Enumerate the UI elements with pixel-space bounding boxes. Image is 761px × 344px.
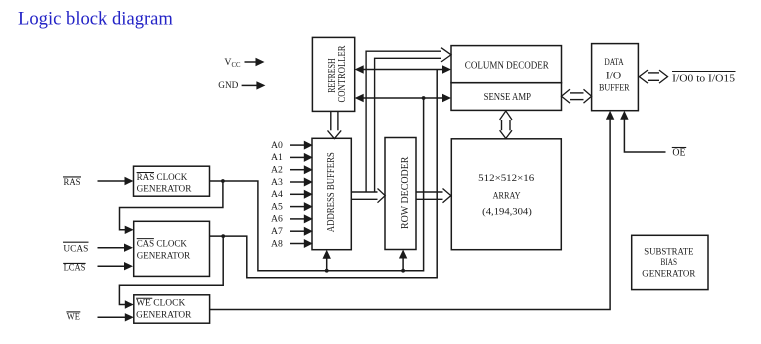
svg-text:ROW DECODER: ROW DECODER	[400, 156, 411, 229]
bus address buffers risers to column decoder	[366, 51, 441, 192]
junction address buffers branch	[325, 269, 329, 273]
OE label	[672, 148, 686, 159]
svg-text:BUFFER: BUFFER	[599, 84, 630, 94]
bus row decoder to array	[416, 192, 443, 199]
svg-text:512×512×16: 512×512×16	[478, 174, 534, 184]
svg-text:CAS CLOCK: CAS CLOCK	[137, 239, 187, 249]
wire RAS to refresh controller and sense amp	[362, 97, 444, 99]
svg-text:GENERATOR: GENERATOR	[642, 269, 696, 279]
svg-text:SENSE AMP: SENSE AMP	[484, 92, 532, 103]
svg-text:A2: A2	[271, 165, 283, 176]
bus sense amp to data I/O buffer (bidirectional)	[569, 93, 585, 100]
junction CAS output branch	[221, 234, 225, 238]
RAS clock generator box	[134, 166, 210, 196]
wire A7	[290, 230, 306, 232]
LCAS input label	[63, 263, 85, 273]
svg-text:LCAS: LCAS	[64, 264, 86, 274]
wire A6	[290, 218, 306, 220]
sense amp box	[451, 83, 562, 111]
WE input label	[66, 312, 80, 322]
column decoder box	[451, 46, 562, 83]
svg-text:BIAS: BIAS	[661, 258, 678, 268]
svg-text:I/O0 to I/O15: I/O0 to I/O15	[672, 73, 735, 84]
svg-text:RAS: RAS	[64, 178, 81, 188]
svg-text:A6: A6	[271, 214, 283, 225]
wire RAS input	[98, 180, 127, 182]
svg-text:RAS CLOCK: RAS CLOCK	[137, 173, 188, 183]
bus refresh controller to address buffers	[331, 112, 338, 130]
svg-text:SUBSTRATE: SUBSTRATE	[644, 248, 693, 258]
CAS clock generator box	[134, 221, 210, 276]
wire WE output to data I/O buffer	[210, 117, 610, 310]
svg-text:A1: A1	[271, 152, 283, 163]
memory array box	[451, 139, 561, 250]
UCAS input label	[63, 242, 89, 254]
data I/O buffer box	[592, 44, 639, 111]
wire CAS to WE clock generator	[119, 236, 223, 304]
svg-text:COLUMN DECODER: COLUMN DECODER	[465, 61, 549, 72]
junction row decoder branch	[401, 269, 405, 273]
svg-text:UCAS: UCAS	[63, 244, 88, 254]
wire A4	[290, 193, 306, 195]
address buffers box	[312, 138, 351, 249]
svg-text:DATA: DATA	[604, 58, 623, 68]
wire RAS output	[210, 98, 424, 271]
svg-text:A3: A3	[271, 177, 283, 188]
svg-text:WE CLOCK: WE CLOCK	[136, 299, 185, 309]
svg-text:ADDRESS BUFFERS: ADDRESS BUFFERS	[326, 152, 337, 232]
svg-text:I/O: I/O	[606, 71, 621, 81]
wire A1	[290, 156, 306, 158]
svg-text:Logic block diagram: Logic block diagram	[18, 9, 173, 30]
wire RAS branch to row decoder	[402, 256, 404, 271]
refresh controller box	[312, 37, 354, 111]
svg-text:A5: A5	[271, 201, 283, 212]
GND arrow	[242, 84, 257, 86]
wire RAS branch to address buffers	[326, 256, 328, 271]
wire A3	[290, 181, 306, 183]
bus address buffers to row decoder	[351, 192, 377, 199]
svg-text:WE: WE	[67, 312, 80, 322]
svg-text:(4,194,304): (4,194,304)	[482, 207, 532, 218]
svg-text:GND: GND	[218, 81, 238, 91]
substrate bias generator box	[632, 235, 708, 289]
junction RAS output branch	[221, 179, 225, 183]
wire A8	[290, 243, 306, 245]
row decoder box	[385, 138, 416, 250]
wire OE to data I/O buffer	[624, 117, 665, 152]
wire CAS output	[210, 70, 438, 278]
svg-text:A8: A8	[271, 238, 283, 249]
Vcc arrow	[245, 61, 257, 63]
WE clock generator box	[134, 295, 210, 323]
wire A0	[290, 144, 306, 146]
svg-text:CONTROLLER: CONTROLLER	[337, 45, 348, 102]
svg-text:GENERATOR: GENERATOR	[136, 311, 192, 321]
svg-text:GENERATOR: GENERATOR	[137, 252, 191, 262]
svg-text:A4: A4	[271, 189, 283, 200]
svg-text:ARRAY: ARRAY	[493, 191, 521, 201]
svg-text:VCC: VCC	[224, 57, 241, 69]
wire CAS to refresh controller and column decoder	[362, 69, 444, 71]
svg-text:GENERATOR: GENERATOR	[137, 185, 192, 195]
bus sense amp to array (bidirectional)	[502, 120, 511, 131]
svg-text:A7: A7	[271, 226, 283, 237]
bus data I/O buffer to I/O pins (bidirectional)	[647, 73, 660, 80]
junction RAS riser	[422, 96, 426, 100]
RAS input label	[63, 177, 81, 188]
wire A2	[290, 169, 306, 171]
svg-text:A0: A0	[271, 140, 283, 151]
I/O0 to I/O15 label	[672, 72, 736, 85]
wire WE input	[98, 316, 127, 318]
wire LCAS input	[98, 265, 127, 267]
wire A5	[290, 206, 306, 208]
wire RAS to CAS clock generator	[120, 181, 223, 230]
bus arrowhead into column decoder	[441, 48, 451, 62]
svg-text:OE: OE	[672, 148, 685, 159]
wire UCAS input	[98, 247, 127, 249]
